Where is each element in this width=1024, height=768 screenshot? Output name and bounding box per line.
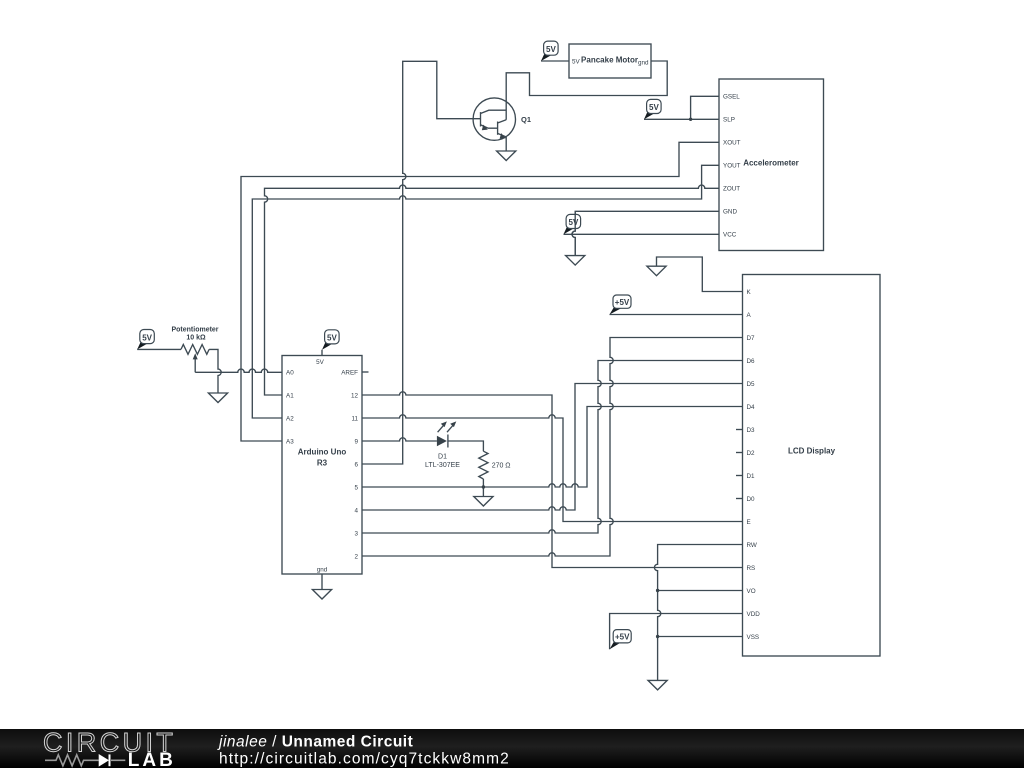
flag +5V at LCD VDD <box>610 630 632 650</box>
junction dots <box>482 118 693 639</box>
svg-text:5V: 5V <box>569 218 579 227</box>
svg-text:D4: D4 <box>747 404 756 411</box>
wire Arduino 5V flag stub <box>321 350 323 356</box>
svg-text:Arduino Uno: Arduino Uno <box>298 448 347 457</box>
svg-text:3: 3 <box>354 530 358 537</box>
svg-text:R3: R3 <box>317 459 328 468</box>
junction VSS <box>656 635 659 638</box>
svg-text:5: 5 <box>354 484 358 491</box>
svg-text:VDD: VDD <box>747 611 761 618</box>
svg-text:6: 6 <box>354 461 358 468</box>
wire resistor bottom to pin5 row junction and ground <box>482 479 484 497</box>
svg-text:RW: RW <box>747 542 757 549</box>
flag 5V at SLP <box>644 99 661 119</box>
svg-text:GSEL: GSEL <box>723 94 740 101</box>
potentiometer R2 wiper arrow <box>193 353 198 372</box>
svg-text:5V: 5V <box>142 333 152 342</box>
wire LCD D1 stub <box>736 475 743 477</box>
wire LCD D0 stub <box>736 498 743 500</box>
svg-text:4: 4 <box>354 507 358 514</box>
flag 5V at Pancake Motor <box>541 41 558 61</box>
svg-text:http://circuitlab.com/cyq7tckk: http://circuitlab.com/cyq7tckkw8mm2 <box>219 751 510 768</box>
wire LCD VO stub to junction <box>658 590 743 592</box>
logo diode triangle <box>99 754 109 767</box>
ground under Q1 <box>497 151 516 161</box>
box Accelerometer U2 <box>719 79 824 251</box>
svg-text:A1: A1 <box>286 392 294 399</box>
wire +5V flag to LCD A pin <box>610 314 743 316</box>
wire LCD RW to ground (vertical hops over RS and VDD rows) <box>654 545 742 681</box>
wire Accelerometer YOUT to Arduino A2 (hop at x402.7) <box>252 165 719 418</box>
svg-text:+5V: +5V <box>615 298 630 307</box>
transistor Q1 emitter arrows (filled) <box>482 125 506 139</box>
svg-text:RS: RS <box>747 565 756 572</box>
wire LCD VDD to +5V flag <box>610 614 743 650</box>
wire Accelerometer GSEL to SLP junction <box>691 96 719 119</box>
wire LCD RS to Arduino pin 12 (hop at x402.7) <box>362 392 743 568</box>
svg-text:K: K <box>747 289 752 296</box>
flag +5V at LCD A <box>610 295 632 315</box>
svg-text:9: 9 <box>354 438 358 445</box>
wire potentiometer wiper to Arduino A0 (hops at x218,x241,x252.3,x264.5) <box>195 369 282 372</box>
wire LED cathode to resistor top <box>448 441 484 451</box>
box LCD Display U3 <box>743 275 881 657</box>
voltage flags <box>137 41 661 649</box>
svg-text:gnd: gnd <box>638 60 649 67</box>
svg-text:YOUT: YOUT <box>723 163 741 170</box>
LED D1 body <box>437 435 448 448</box>
wire Accelerometer XOUT to Arduino A3 <box>241 142 719 441</box>
wire Arduino pin 9 to LED anode (hop at x402.7) <box>362 438 437 441</box>
svg-text:jinalee / Unnamed Circuit: jinalee / Unnamed Circuit <box>217 734 413 751</box>
LED D1 light arrows <box>438 421 457 432</box>
wire LCD D7 to Arduino pin 2 (vertical hops at D6,D5,D4,E rows; hop at x552) <box>362 338 743 557</box>
svg-text:ZOUT: ZOUT <box>723 186 740 193</box>
svg-text:Accelerometer: Accelerometer <box>743 159 799 168</box>
svg-text:A2: A2 <box>286 415 294 422</box>
svg-text:+5V: +5V <box>615 633 630 642</box>
svg-text:A0: A0 <box>286 369 294 376</box>
svg-text:270 Ω: 270 Ω <box>492 463 511 470</box>
svg-text:SLP: SLP <box>723 117 735 124</box>
svg-text:5V: 5V <box>546 45 556 54</box>
junction resistor/pin5 <box>482 485 485 488</box>
svg-text:D5: D5 <box>747 381 756 388</box>
flag 5V at potentiometer <box>137 330 154 350</box>
svg-text:5V: 5V <box>649 103 659 112</box>
flag 5V at VCC <box>564 214 581 234</box>
wire LCD D4 to Arduino pin 5 (hops at x575, x563, x552) <box>362 407 743 488</box>
transistor Q1 darlington circle <box>473 98 515 140</box>
wire LCD D3 stub <box>736 429 743 431</box>
svg-text:D2: D2 <box>747 450 756 457</box>
wire LCD D6 to Arduino pin 3 (vertical hops at D5,D4,E rows; hop at x552) <box>362 361 743 534</box>
svg-text:Potentiometer: Potentiometer <box>171 326 218 333</box>
box Pancake Motor M1 <box>569 44 651 78</box>
svg-text:LAB: LAB <box>128 750 176 768</box>
ground LCD K <box>647 266 666 276</box>
svg-text:LCD Display: LCD Display <box>788 447 836 456</box>
svg-text:gnd: gnd <box>317 566 328 573</box>
flag 5V at Arduino top <box>322 330 339 350</box>
wire LCD VSS stub to junction <box>658 636 743 638</box>
svg-text:D1: D1 <box>438 453 447 460</box>
svg-text:VSS: VSS <box>747 634 760 641</box>
svg-text:GND: GND <box>723 209 737 216</box>
wire 5V flag to potentiometer left <box>137 348 181 350</box>
wire Accelerometer GND to ground (hop over VCC wire) <box>572 211 719 255</box>
wire AREF stub <box>362 371 369 373</box>
svg-text:D7: D7 <box>747 335 756 342</box>
svg-text:2: 2 <box>354 553 358 560</box>
wire Arduino gnd pin to ground <box>321 574 323 590</box>
wire Pancake Motor gnd pin to Q1 collector <box>506 61 667 98</box>
wire 5V flag to Accelerometer VCC pin <box>564 233 720 235</box>
svg-text:D3: D3 <box>747 427 756 434</box>
wire 5V flag to Pancake Motor 5V pin <box>541 60 569 62</box>
svg-text:Q1: Q1 <box>521 115 531 124</box>
wire accel GND vertical drawn over 5V flag <box>572 211 575 255</box>
svg-text:D1: D1 <box>747 473 756 480</box>
svg-text:AREF: AREF <box>341 369 358 376</box>
svg-text:Pancake Motor: Pancake Motor <box>581 56 638 65</box>
svg-text:5V: 5V <box>316 359 325 366</box>
svg-text:A: A <box>747 312 752 319</box>
ground under resistor R1 <box>474 497 493 507</box>
wire Q1 base to Arduino pin 6 (with hop over XOUT bus) <box>362 61 481 464</box>
svg-text:E: E <box>747 519 751 526</box>
svg-text:VO: VO <box>747 588 756 595</box>
svg-text:5V: 5V <box>327 334 337 343</box>
wire LCD E to Arduino pin 11 (hops at x552 and x402.7) <box>362 415 743 522</box>
svg-text:10 kΩ: 10 kΩ <box>186 335 206 342</box>
wire 5V flag to Accelerometer SLP pin <box>644 118 719 120</box>
wire Accelerometer ZOUT to Arduino A1 (hops at x701.6 and x402.7, vertical hop at y199) <box>265 185 720 395</box>
svg-text:D6: D6 <box>747 358 756 365</box>
svg-text:5V: 5V <box>572 59 581 66</box>
potentiometer R2 zigzag <box>181 345 209 355</box>
box Arduino Uno R3 U1 <box>282 356 362 575</box>
junction GSEL/SLP <box>689 118 692 121</box>
transistor Q1 inner structure <box>481 98 507 137</box>
wire Q1 emitter to ground <box>505 137 507 151</box>
wire LCD K pin to ground <box>657 257 743 292</box>
svg-text:LTL-307EE: LTL-307EE <box>425 462 460 469</box>
svg-text:VCC: VCC <box>723 232 737 239</box>
wire potentiometer right to ground <box>209 349 221 393</box>
wire LCD D5 to Arduino pin 4 (hops at x563 and x552) <box>362 384 743 511</box>
ground under potentiometer <box>208 393 227 403</box>
ground LCD RW net <box>648 680 667 690</box>
svg-text:A3: A3 <box>286 438 294 445</box>
svg-text:D0: D0 <box>747 496 756 503</box>
svg-text:XOUT: XOUT <box>723 140 741 147</box>
ground under Arduino <box>312 590 331 600</box>
ground accelerometer GND <box>566 256 585 266</box>
svg-text:12: 12 <box>351 392 359 399</box>
resistor R1 270 ohm zigzag <box>479 451 488 479</box>
wire LCD D2 stub <box>736 452 743 454</box>
svg-text:11: 11 <box>351 415 358 422</box>
logo diode graphic <box>45 754 125 766</box>
bottom bar background <box>0 729 1024 768</box>
junction VO <box>656 589 659 592</box>
